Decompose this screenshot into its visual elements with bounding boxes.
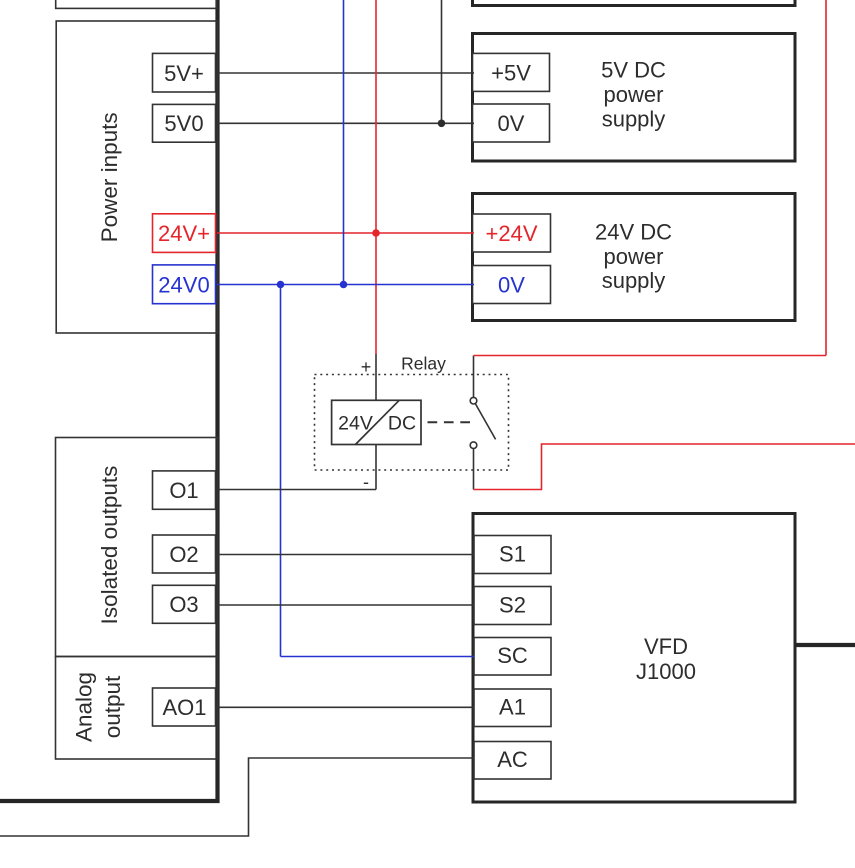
group box cut off at top: [56, 0, 217, 8]
relay K1 dotted enclosure: [315, 375, 509, 471]
terminal AO1: [153, 688, 216, 726]
svg-text:O1: O1: [169, 478, 198, 503]
svg-text:24V0: 24V0: [158, 272, 209, 297]
svg-text:AC: AC: [497, 747, 528, 772]
wire O2 to S1: [216, 554, 474, 556]
svg-text:O3: O3: [169, 592, 198, 617]
terminal O3: [153, 585, 216, 623]
svg-text:5V0: 5V0: [164, 111, 203, 136]
junction dot 24V0 net left: [277, 281, 285, 289]
terminal +24V (24V supply): [473, 214, 551, 252]
relay contact bottom circle: [470, 442, 477, 449]
wire switch bottom (black): [473, 449, 475, 490]
terminal 24V0: [153, 265, 216, 304]
wire O1 to relay coil minus: [216, 489, 376, 491]
svg-text:DC: DC: [388, 412, 416, 434]
wire 24V0 to 0V (blue): [217, 284, 474, 286]
terminal A1: [474, 689, 551, 727]
terminal 5V+: [153, 53, 216, 92]
wire 5V+ to +5V: [217, 72, 474, 74]
svg-text:+: +: [361, 357, 372, 377]
terminal SC: [474, 638, 551, 676]
terminal AC: [474, 742, 551, 780]
wire coil bottom (black): [375, 445, 377, 490]
svg-text:+5V: +5V: [491, 60, 531, 85]
junction dot 5V0 net: [438, 120, 446, 128]
relay contact top circle: [470, 397, 477, 404]
svg-text:Power inputs: Power inputs: [97, 112, 122, 242]
svg-text:AO1: AO1: [162, 695, 206, 720]
svg-text:J1000: J1000: [636, 659, 696, 684]
terminal 0V (5V supply): [473, 104, 550, 142]
controller board outline (thick L edge): [0, 0, 218, 801]
svg-text:A1: A1: [499, 695, 526, 720]
svg-text:S1: S1: [499, 541, 526, 566]
relay contact blade: [475, 403, 495, 439]
wire blue vertical from top to 24V0 net: [343, 0, 345, 285]
relay actuation dashed link: [428, 421, 472, 423]
wire AC return: [0, 758, 474, 836]
svg-text:5V+: 5V+: [164, 61, 204, 86]
Isolated outputs group box: [56, 438, 218, 657]
wire O3 to S2: [216, 604, 474, 606]
24V DC power supply box: [473, 194, 796, 321]
wire 5V0 to 0V: [217, 122, 474, 124]
wire coil top (black): [375, 354, 377, 401]
terminal S2: [474, 587, 551, 625]
wire switch top (black): [473, 356, 475, 398]
VFD J1000 box: [473, 514, 795, 803]
wire blue vertical 24V0 down to SC: [280, 285, 282, 657]
terminal O1: [153, 471, 216, 509]
svg-text:Analog: Analog: [72, 672, 97, 742]
wire blue horizontal to SC: [281, 656, 475, 658]
svg-text:Isolated outputs: Isolated outputs: [97, 466, 122, 625]
svg-text:supply: supply: [602, 107, 666, 132]
junction dot 24V+ rail: [372, 229, 380, 237]
junction dot 24V0 net right: [340, 281, 348, 289]
wire red horizontal to switch: [474, 355, 827, 357]
svg-text:24V+: 24V+: [158, 221, 210, 246]
svg-text:0V: 0V: [498, 111, 525, 136]
svg-text:S2: S2: [499, 592, 526, 617]
svg-text:0V: 0V: [498, 272, 525, 297]
svg-text:power: power: [604, 82, 664, 107]
svg-text:output: output: [100, 675, 125, 738]
svg-text:SC: SC: [497, 643, 528, 668]
svg-text:24V: 24V: [338, 412, 373, 434]
wire red from top right rail: [825, 0, 827, 356]
terminal 24V+: [153, 214, 216, 253]
Power inputs group box: [56, 21, 217, 333]
terminal S1: [474, 536, 551, 574]
svg-text:24V DC: 24V DC: [595, 220, 672, 245]
terminal O2: [153, 535, 216, 573]
svg-text:+24V: +24V: [486, 221, 538, 246]
5V DC power supply box: [473, 34, 796, 162]
wire AO1 to A1: [216, 706, 474, 708]
terminal 0V (24V supply): [473, 266, 551, 304]
svg-text:5V DC: 5V DC: [601, 58, 666, 83]
wire VFD output (thick): [795, 643, 855, 647]
Analog output group box: [56, 657, 218, 760]
svg-text:power: power: [604, 244, 664, 269]
terminal 5V0: [153, 104, 216, 142]
terminal +5V (5V supply): [473, 53, 550, 91]
relay coil box 24V/DC: [332, 400, 421, 444]
svg-text:VFD: VFD: [644, 634, 688, 659]
wire red vertical 24V+ rail from top to relay coil: [375, 0, 377, 354]
svg-text:O2: O2: [169, 542, 198, 567]
svg-text:Relay: Relay: [401, 353, 446, 373]
wire red switch output: [474, 444, 855, 490]
wire black vertical from top to 5V0 net: [441, 0, 443, 123]
power supply box (cut off at top): [473, 0, 796, 6]
svg-text:supply: supply: [602, 268, 666, 293]
wire 24V+ to +24V (red): [217, 232, 474, 234]
